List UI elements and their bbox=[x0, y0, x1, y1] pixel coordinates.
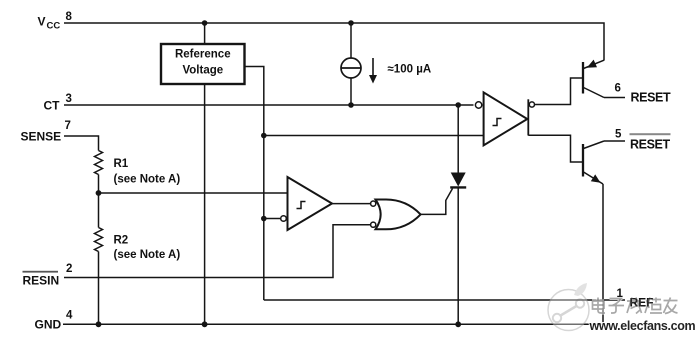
comparator B (SENSE Schmitt trigger) bbox=[281, 177, 332, 230]
node CT current source bbox=[348, 102, 354, 108]
watermark elecfans chinese text bbox=[592, 298, 678, 314]
svg-text:RESET: RESET bbox=[630, 138, 670, 152]
label R1 (see Note A) bbox=[114, 158, 181, 186]
svg-text:R1: R1 bbox=[114, 158, 129, 170]
wire Q1 collector to pin 6 bbox=[604, 97, 625, 99]
reference voltage box U1 bbox=[161, 44, 245, 84]
wire Q2 collector to pin 5 bbox=[604, 140, 625, 142]
pin 5 RESET-bar label bbox=[615, 129, 671, 152]
pin 6 RESET label bbox=[615, 83, 671, 105]
svg-text:(see Note A): (see Note A) bbox=[114, 174, 181, 186]
svg-text:CT: CT bbox=[44, 99, 61, 113]
pin 1 REF label bbox=[617, 288, 654, 310]
current direction arrow bbox=[369, 58, 377, 84]
wire NOR output to SCR gate bbox=[421, 189, 453, 215]
node VCC to current source bbox=[348, 20, 354, 26]
watermark elecfans logo bbox=[548, 283, 589, 331]
svg-text:GND: GND bbox=[35, 318, 62, 332]
svg-text:7: 7 bbox=[65, 120, 71, 132]
NOR gate G1 (negative-input OR) bbox=[371, 200, 421, 230]
svg-text:Reference: Reference bbox=[175, 49, 231, 61]
svg-text:6: 6 bbox=[615, 83, 621, 95]
wire CT node to SCR anode bbox=[457, 105, 459, 173]
svg-text:5: 5 bbox=[615, 129, 622, 141]
svg-text:CC: CC bbox=[47, 21, 61, 32]
comparator A (CT Schmitt trigger) bbox=[475, 92, 527, 145]
pin 8 VCC label bbox=[38, 11, 73, 32]
node VCC to reference box bbox=[202, 20, 208, 26]
transistor Q1 (PNP, RESET driver) bbox=[583, 60, 604, 98]
svg-text:2: 2 bbox=[66, 263, 72, 275]
resistor R1 bbox=[95, 151, 103, 175]
wire ref to comparator B inverting bubble bbox=[264, 218, 280, 220]
node R1 R2 divider bbox=[96, 190, 102, 196]
pin 3 CT label bbox=[44, 93, 72, 113]
svg-text:REF: REF bbox=[630, 296, 654, 310]
wire comparator B output to NOR input bbox=[332, 203, 371, 205]
wire CT line bbox=[64, 104, 474, 106]
wire VCC down to current source bbox=[350, 23, 352, 59]
svg-text:4: 4 bbox=[66, 310, 73, 322]
node GND R2 bbox=[96, 321, 102, 327]
wire VCC rail bbox=[64, 23, 604, 61]
svg-text:Voltage: Voltage bbox=[182, 65, 223, 77]
wire reference box bottom to GND bbox=[204, 84, 206, 324]
wire reference output (right side, down to REF node) bbox=[245, 67, 264, 301]
wire divider to comparator B input bbox=[99, 192, 288, 194]
svg-text:R2: R2 bbox=[114, 235, 129, 247]
wire direct output to Q2 base bbox=[528, 135, 582, 162]
node GND reference bbox=[202, 321, 208, 327]
SCR crowbar thyristor bbox=[450, 173, 466, 188]
current source I1 bbox=[341, 58, 361, 78]
wire REF node to pin 1 bbox=[264, 299, 625, 301]
svg-text:www.elecfans.com: www.elecfans.com bbox=[589, 319, 696, 333]
svg-text:V: V bbox=[38, 15, 46, 29]
node ref branch to comparator A bbox=[261, 133, 267, 139]
output inverting bubble bbox=[529, 102, 534, 107]
wire SCR cathode to GND bbox=[457, 187, 459, 324]
svg-text:SENSE: SENSE bbox=[21, 130, 62, 144]
wire GND rail bbox=[63, 323, 603, 325]
pin 2 RESIN label bbox=[23, 263, 73, 288]
label R2 (see Note A) bbox=[114, 235, 181, 262]
wire Q2 emitter to GND bbox=[602, 184, 604, 324]
wire RESIN to NOR lower input bbox=[64, 225, 371, 278]
svg-text:≈100 µA: ≈100 µA bbox=[388, 64, 432, 76]
wire R1 to R2 bbox=[98, 175, 100, 228]
svg-text:RESET: RESET bbox=[631, 91, 671, 105]
pin 7 SENSE label bbox=[21, 120, 71, 144]
node GND SCR bbox=[455, 321, 461, 327]
svg-text:(see Note A): (see Note A) bbox=[114, 249, 181, 261]
wire VCC down to reference box top bbox=[204, 23, 206, 44]
wire current source to CT node bbox=[350, 78, 352, 105]
pin 4 GND label bbox=[35, 310, 74, 332]
wire inverted output to Q1 base bbox=[535, 78, 583, 105]
svg-text:8: 8 bbox=[66, 11, 73, 23]
svg-text:3: 3 bbox=[66, 93, 72, 105]
wire R2 to GND bbox=[98, 252, 100, 325]
wire SENSE to R1 bbox=[64, 136, 99, 151]
resistor R2 bbox=[95, 228, 103, 252]
transistor Q2 (NPN, RESET-bar driver) bbox=[583, 141, 604, 184]
node ref branch to comparator B bbox=[261, 216, 267, 222]
node CT SCR branch bbox=[455, 102, 461, 108]
wire ref to comparator A lower input bbox=[264, 135, 483, 137]
svg-text:RESIN: RESIN bbox=[23, 274, 60, 288]
output stage bar bbox=[527, 99, 529, 135]
